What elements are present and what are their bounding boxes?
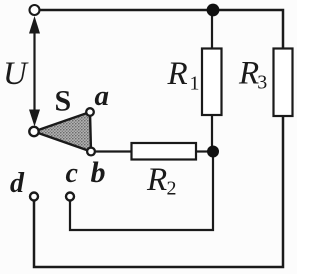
svg-text:a: a <box>95 80 110 112</box>
svg-text:S: S <box>55 85 72 118</box>
svg-text:c: c <box>66 158 79 189</box>
svg-text:b: b <box>91 156 106 189</box>
svg-text:R: R <box>146 162 167 198</box>
svg-text:d: d <box>10 168 25 199</box>
svg-text:U: U <box>3 56 29 92</box>
svg-text:R: R <box>167 56 188 92</box>
svg-text:3: 3 <box>257 72 267 94</box>
svg-text:R: R <box>238 56 259 92</box>
svg-text:2: 2 <box>167 178 177 200</box>
svg-text:1: 1 <box>190 73 200 95</box>
